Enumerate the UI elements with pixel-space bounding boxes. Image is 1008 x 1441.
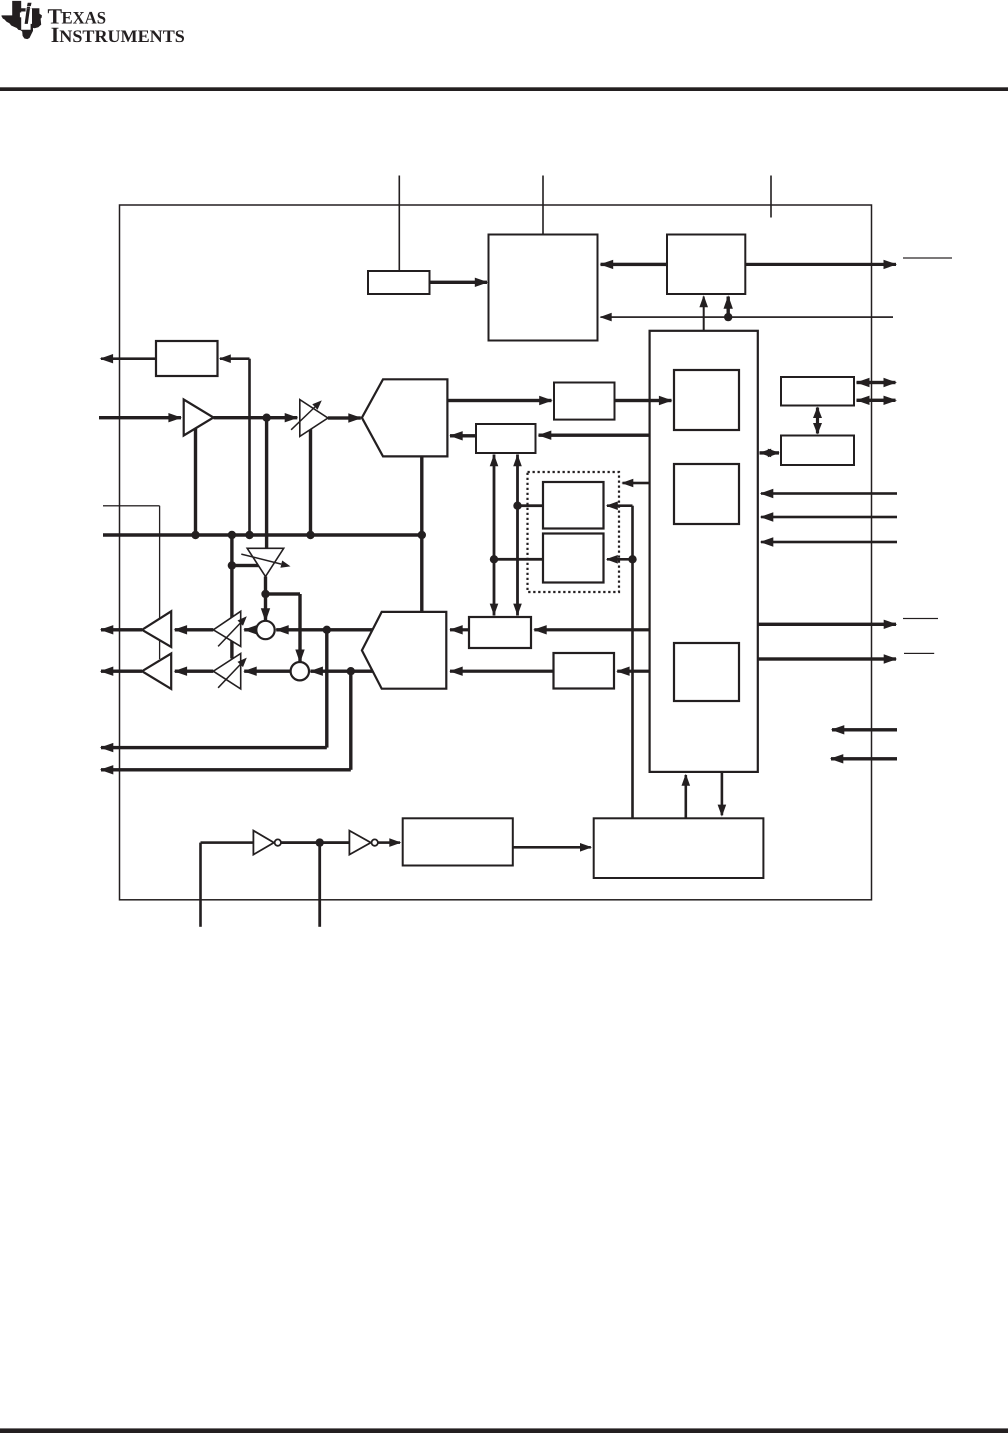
control input wire S0	[761, 492, 897, 495]
pin stub wire VDDOUT	[542, 176, 544, 235]
wire tap to delay inverter	[232, 564, 261, 567]
variable skew buffer A2	[300, 400, 328, 437]
bidirectional wire register file to EEPROM	[760, 451, 780, 454]
oscillator inverter A9	[349, 831, 370, 855]
oscillator inverter A8	[253, 831, 274, 855]
buffer A1 (input buffer)	[184, 400, 214, 436]
wire charge pump to PLL with arrow	[601, 263, 668, 266]
wire mux2 row to xor2 with arrow	[310, 670, 350, 673]
wire register file to clock control with arrow	[721, 772, 724, 815]
footer rule	[0, 1428, 1008, 1433]
svg-text:EXAS: EXAS	[62, 8, 107, 28]
block U11 divider B	[543, 534, 604, 583]
wire input net down to delay inverter	[265, 418, 268, 549]
Texas Instruments logo bug	[2, 1, 42, 39]
output wire CLKOUT1 with arrow	[101, 670, 142, 673]
junction bus / buffer branch	[191, 531, 199, 539]
wire inverter1 to inverter2	[281, 841, 349, 844]
block U9 EEPROM	[781, 436, 854, 466]
wire into lock detect with arrow	[220, 357, 250, 360]
wire skew buffer branch down to bus	[309, 429, 312, 535]
wire xor1 to skew1 with arrow	[244, 628, 256, 631]
variable skew buffer A7 (row2)	[213, 654, 240, 689]
wire mux2 row to xor1 with arrow	[276, 628, 327, 631]
xor/mute circle X2	[291, 662, 309, 680]
wire output divider to mux2 with arrow	[450, 670, 554, 673]
wire register file to charge pump with arrow	[703, 297, 705, 331]
wire row2 branch down and out with arrow	[349, 671, 352, 770]
bidirectional serial clock wire SCL	[857, 399, 896, 402]
output wire LOCK with arrow	[101, 357, 156, 360]
wire tap to divider A	[518, 504, 543, 507]
wire feedback divider to register bank 1 with arrow	[615, 399, 672, 402]
svg-text:I: I	[51, 23, 59, 47]
wire feedback net up to charge pump with arrow	[727, 297, 730, 318]
svg-text:NSTRUMENTS: NSTRUMENTS	[59, 26, 185, 46]
wire mux1 to bus to mux2	[420, 456, 423, 612]
junction row1	[323, 626, 331, 634]
pin label line Y0	[903, 618, 938, 619]
junction oscillator net	[316, 838, 324, 846]
outer boundary of device block diagram	[120, 205, 872, 900]
wire lock detect feed down to bus	[248, 359, 251, 535]
wire prescaler to PLL with arrow	[430, 281, 488, 284]
wire inverter2 to oscillator with arrow	[378, 841, 400, 844]
junction bus / lock detect branch	[245, 531, 253, 539]
junction bus / mux column	[418, 531, 426, 539]
wire xor2 to skew2 with arrow	[244, 670, 291, 673]
enable control wire (thin)	[103, 505, 160, 506]
block U1 lock detect	[156, 341, 218, 376]
wire register file to state machine with arrow	[534, 628, 649, 631]
control input wire S2	[761, 541, 897, 544]
junction on feedback net	[724, 313, 732, 321]
block U13 output divider	[554, 653, 615, 689]
wire control column to divider B with arrow	[607, 558, 633, 561]
junction tap to divider A	[513, 502, 521, 510]
junction bus branch	[228, 531, 236, 539]
output wire Y1 with arrow	[758, 657, 896, 660]
wire inverter output corner to xor2 with arrow	[266, 592, 301, 595]
block U7a control register bank 1	[674, 370, 739, 430]
junction delay inverter enable tap	[228, 561, 236, 569]
output wire CLKOUT0 with arrow	[101, 628, 142, 631]
wire bus branch down to output stage	[230, 535, 233, 659]
dotted group: frequency dividers	[528, 472, 620, 592]
header rule	[0, 87, 1008, 91]
wire tap to divider B	[494, 558, 542, 561]
bidirectional wire switch to state machine (left) with taps	[493, 455, 496, 616]
wire skew2 to driver2 with arrow	[175, 670, 214, 673]
junction control column	[628, 555, 636, 563]
block U5 feedback divider	[554, 383, 615, 420]
junction row2	[347, 667, 355, 675]
wire control column down to clock control	[631, 506, 634, 819]
xor/mute circle X1	[256, 621, 274, 639]
block U6 glitch-free switch	[476, 424, 536, 453]
block U16 crystal oscillator	[403, 818, 513, 865]
reference clock bus wire	[103, 533, 422, 537]
junction tap to divider B	[490, 555, 498, 563]
wire charge pump output to pin with arrow	[745, 263, 896, 266]
block U8 serial interface	[781, 377, 854, 406]
pin stub wire GND	[770, 176, 772, 218]
wire glitch-free switch to mux1 with arrow	[450, 434, 476, 437]
wire row1 to mux2 edge	[327, 628, 374, 631]
control input wire S1	[761, 516, 897, 519]
block U12 output state machine	[469, 617, 531, 648]
wire feedback net to PLL	[601, 316, 894, 318]
output driver A5 (row2)	[142, 654, 171, 689]
wire register file to output divider with arrow	[617, 670, 649, 673]
skew adjust arrow of A6	[218, 623, 240, 646]
output wire Y0 with arrow	[758, 623, 896, 626]
input wire XIN with arrow	[99, 416, 181, 419]
input wire ENABLE with arrow	[831, 757, 897, 760]
mux M2	[362, 612, 446, 689]
block U17 clock control	[594, 818, 764, 878]
wire register file to dotted group with arrow	[623, 482, 650, 485]
wire skew buffer to mux1 with arrow	[328, 416, 361, 419]
wire oscillator to clock control with arrow	[513, 846, 591, 849]
mux M1	[362, 379, 448, 456]
block U4 charge pump / loop filter	[667, 235, 745, 295]
junction bus / skew branch	[306, 531, 314, 539]
block U10 divider A	[543, 482, 604, 529]
bidirectional wire switch to state machine (right) with taps	[516, 455, 519, 616]
variable skew buffer A6 (row1)	[213, 611, 240, 646]
block U2 prescaler	[368, 271, 430, 294]
wire mux1 output to feedback divider with arrow	[447, 399, 551, 402]
skew adjust arrow of A2	[291, 407, 315, 430]
pin label line (top right)	[903, 257, 952, 258]
wire row2 to mux2 edge	[351, 670, 374, 673]
pin stub wire XTAL2	[318, 843, 321, 927]
wire input buffer to skew buffer with arrow	[214, 416, 298, 419]
skew adjust arrow of A7	[218, 665, 240, 688]
input wire RESET with arrow	[832, 728, 897, 731]
bidirectional wire serial interface to EEPROM	[816, 408, 819, 434]
block U7 register file (tall)	[650, 331, 758, 772]
wire row1 branch down and out with arrow	[325, 630, 328, 748]
wire inverter output to xor1 with arrow	[264, 594, 267, 621]
wire clock control to register file with arrow	[685, 775, 688, 818]
wire delay inverter output down	[264, 577, 267, 595]
wire input buffer branch down to bus	[194, 429, 197, 536]
pin stub wire XTAL1	[201, 841, 254, 844]
wire state machine to mux2 with arrow	[450, 628, 469, 631]
wire register file to glitch-free switch with arrow	[539, 434, 650, 437]
delay adjust arrow of A3	[241, 554, 281, 564]
block U7b control register bank 2	[674, 464, 739, 524]
block U7c control register bank 3	[674, 643, 739, 701]
wire skew1 to driver1 with arrow	[175, 628, 214, 631]
variable delay inverter A3	[247, 548, 284, 576]
junction inverter output	[261, 590, 269, 598]
junction on input net	[262, 414, 270, 422]
bidirectional serial data wire SDA	[857, 381, 896, 384]
pin label line Y1	[904, 653, 934, 654]
wire control column to divider A with arrow	[607, 504, 633, 507]
pin stub wire VDD	[399, 176, 401, 272]
block U3 PLL core	[489, 235, 598, 341]
output driver A4 (row1)	[142, 611, 171, 647]
